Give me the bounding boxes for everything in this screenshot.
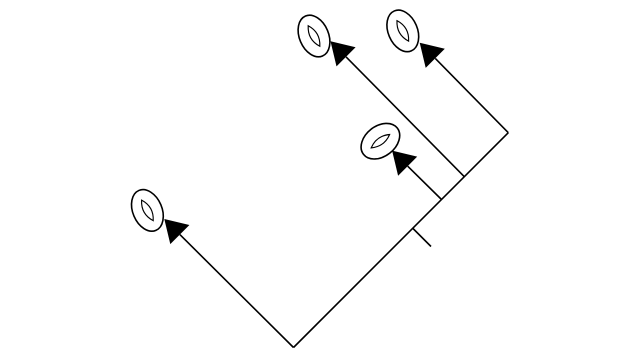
wire: main diagonal V1 to V2	[294, 133, 509, 348]
grommet B (top right)	[381, 5, 425, 56]
wire: branch junction to arrow A	[346, 57, 464, 177]
wire: V2 up-left to arrow B	[435, 58, 508, 132]
arrowhead B	[420, 43, 445, 68]
grommet A (top middle)	[292, 10, 336, 61]
arrowhead A	[331, 41, 356, 66]
arrowhead D	[164, 219, 189, 244]
wire: V1 up-left to arrow D	[180, 235, 294, 348]
grommet C (middle)	[354, 116, 406, 166]
wire: branch junction to arrow C	[408, 166, 441, 199]
arrowhead C	[392, 151, 417, 176]
grommet D (left)	[125, 185, 169, 236]
wire: short stub below diagonal	[413, 229, 431, 247]
